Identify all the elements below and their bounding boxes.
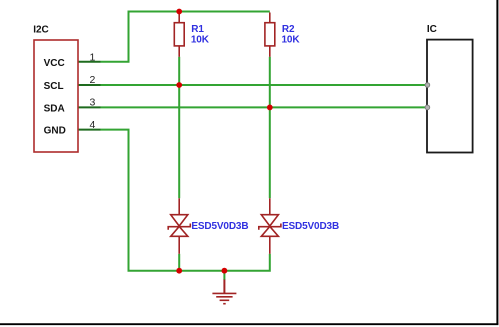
svg-text:SCL: SCL	[44, 81, 64, 92]
svg-text:ESD5V0D3B: ESD5V0D3B	[282, 221, 339, 232]
svg-text:10K: 10K	[191, 34, 210, 45]
svg-text:ESD5V0D3B: ESD5V0D3B	[191, 221, 248, 232]
svg-text:IC: IC	[427, 24, 437, 35]
svg-text:I2C: I2C	[33, 25, 49, 36]
svg-text:R1: R1	[191, 24, 204, 35]
svg-text:10K: 10K	[282, 34, 301, 45]
svg-text:3: 3	[89, 97, 95, 109]
svg-text:VCC: VCC	[44, 58, 65, 69]
svg-text:SDA: SDA	[44, 103, 65, 114]
svg-text:4: 4	[89, 119, 95, 131]
svg-text:R2: R2	[282, 24, 295, 35]
svg-text:GND: GND	[44, 126, 66, 137]
svg-text:2: 2	[89, 74, 95, 86]
svg-text:1: 1	[89, 51, 95, 63]
